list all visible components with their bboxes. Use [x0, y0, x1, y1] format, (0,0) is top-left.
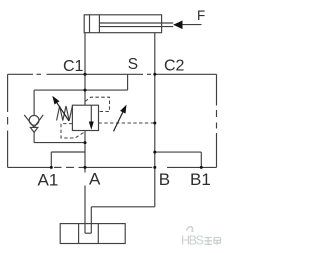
- svg-text:A1: A1: [38, 170, 59, 189]
- svg-text:HBS: HBS: [181, 234, 204, 248]
- svg-text:B: B: [159, 170, 170, 189]
- svg-text:A: A: [89, 170, 101, 189]
- svg-text:F: F: [197, 8, 205, 23]
- svg-text:C1: C1: [63, 58, 84, 75]
- svg-text:C2: C2: [164, 58, 185, 75]
- svg-text:B1: B1: [190, 170, 211, 189]
- svg-text:S: S: [128, 56, 138, 73]
